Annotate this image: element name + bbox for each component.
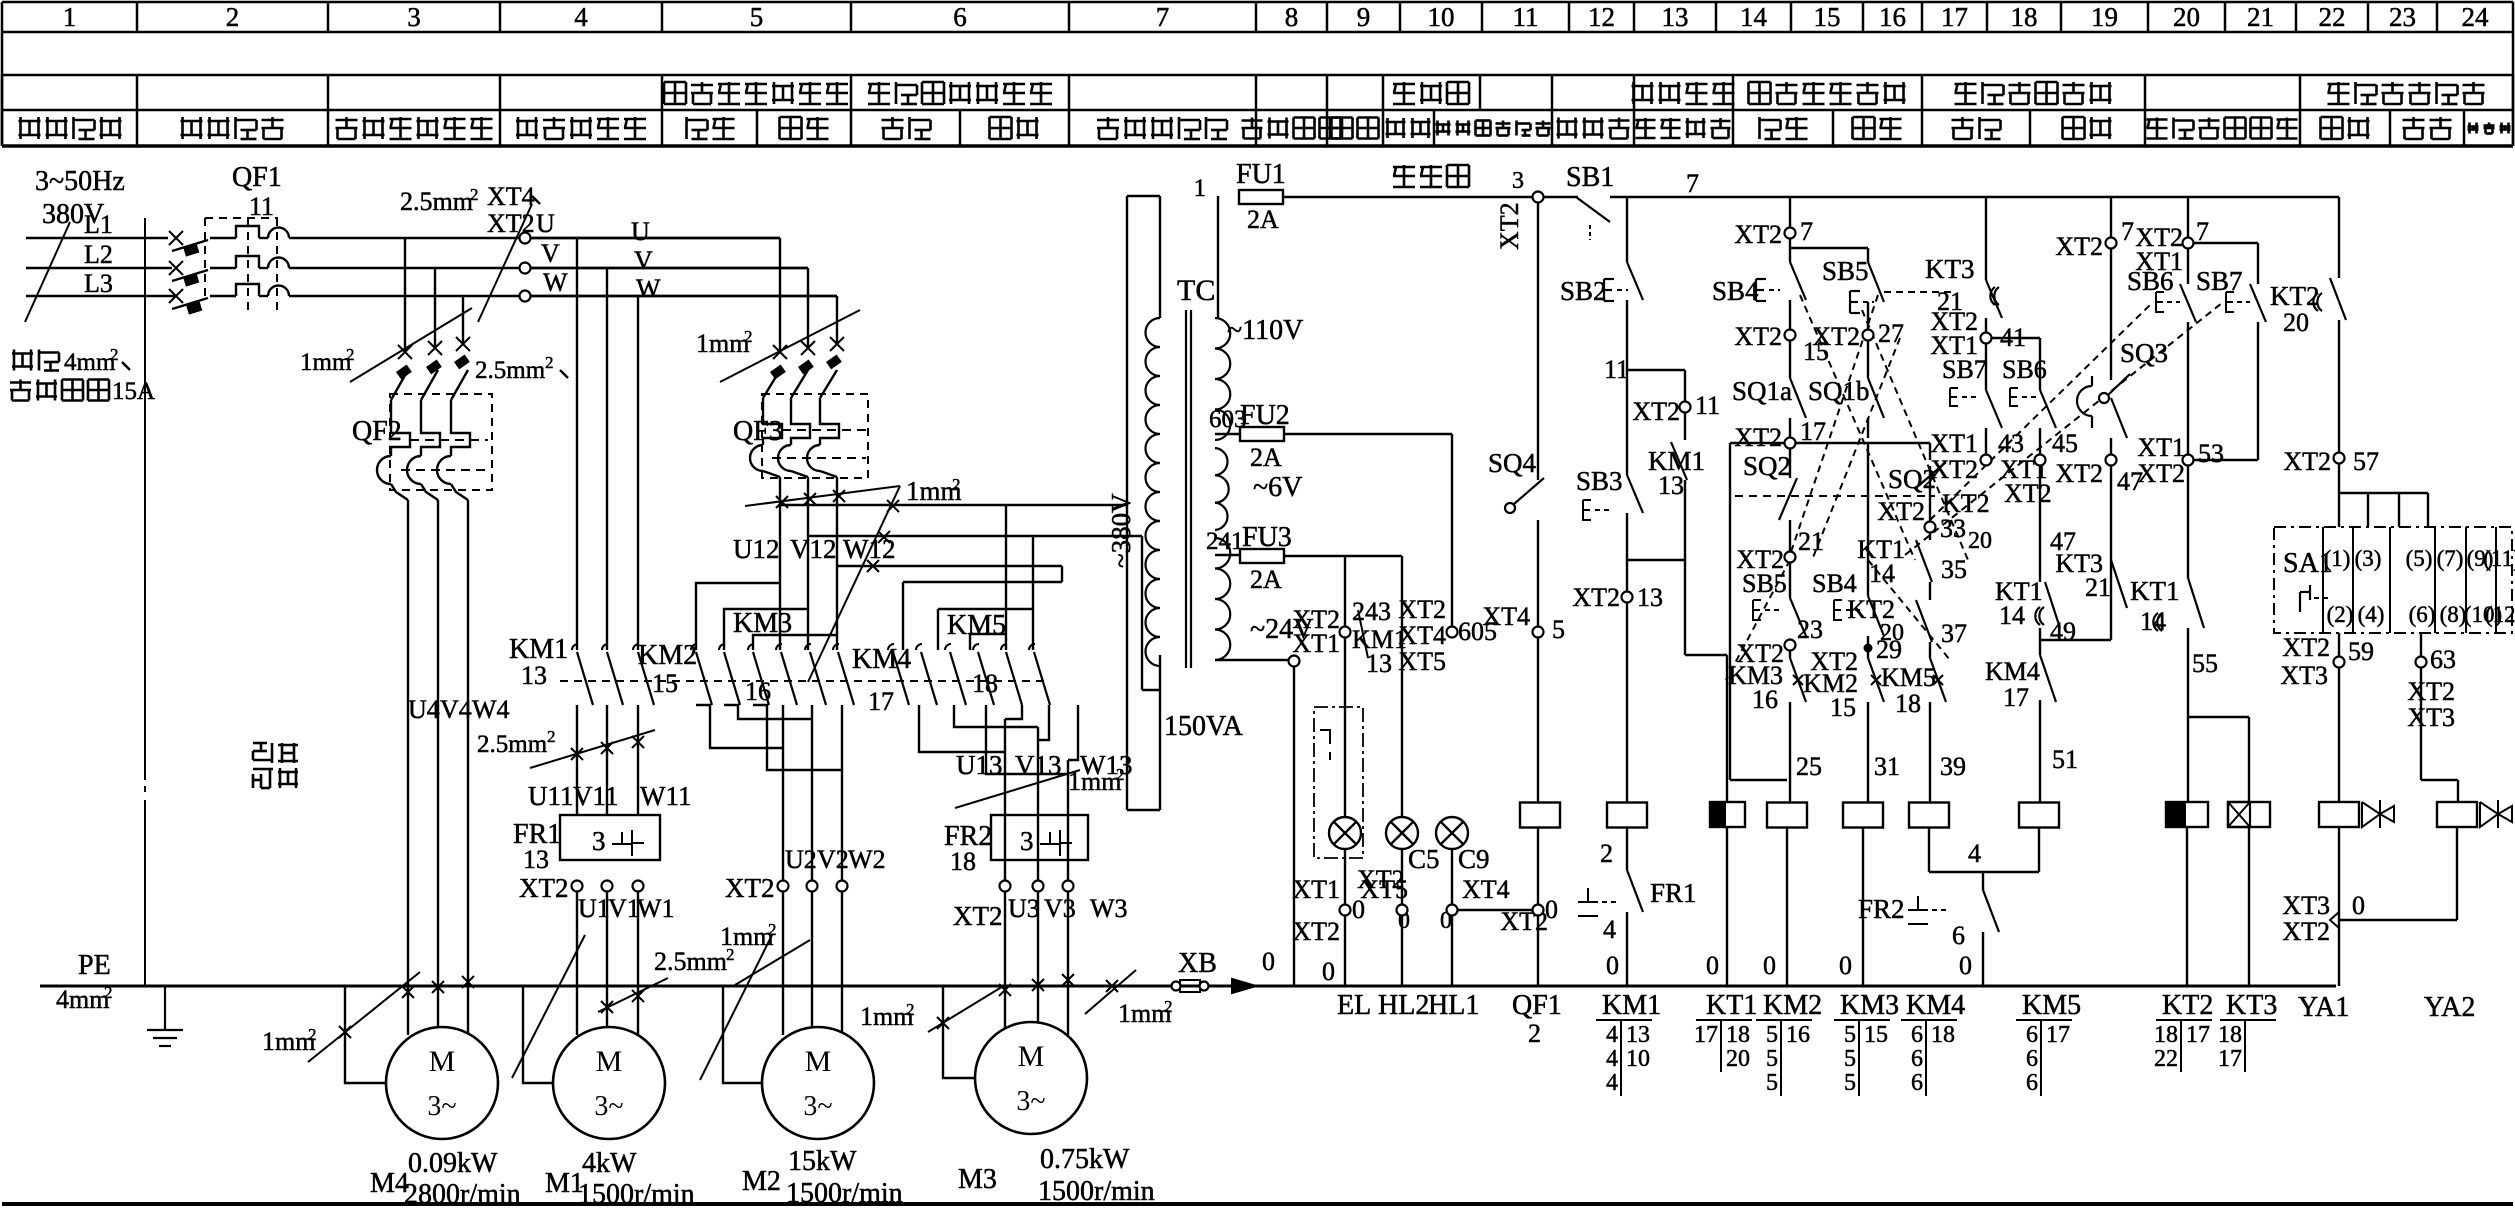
- svg-text:4mm: 4mm: [56, 985, 109, 1014]
- svg-text:18: 18: [1726, 1022, 1750, 1048]
- svg-text:5: 5: [1844, 1046, 1856, 1072]
- svg-text:(5): (5): [2406, 546, 2433, 571]
- svg-text:55: 55: [2192, 649, 2218, 678]
- svg-text:13: 13: [1662, 2, 1689, 32]
- svg-text:47: 47: [2050, 527, 2076, 556]
- svg-text:XT2: XT2: [1734, 322, 1782, 351]
- svg-text:W11: W11: [640, 781, 691, 811]
- svg-text:11: 11: [249, 192, 274, 221]
- svg-text:W: W: [543, 268, 568, 297]
- svg-text:(3): (3): [2355, 546, 2382, 571]
- svg-text:5: 5: [1844, 1070, 1856, 1096]
- svg-text:XT2: XT2: [1572, 583, 1620, 612]
- svg-text:SB3: SB3: [1576, 466, 1623, 496]
- svg-text:1mm: 1mm: [696, 329, 749, 358]
- svg-text:0: 0: [1262, 947, 1275, 976]
- svg-text:U2: U2: [785, 845, 817, 874]
- svg-text:SB4: SB4: [1812, 569, 1857, 598]
- svg-text:21: 21: [1798, 527, 1824, 556]
- svg-text:XT1: XT1: [1292, 875, 1340, 904]
- svg-text:47: 47: [2117, 467, 2143, 496]
- svg-text:M: M: [1018, 1040, 1045, 1073]
- svg-text:(12): (12): [2485, 602, 2515, 627]
- svg-text:59: 59: [2348, 637, 2374, 666]
- svg-text:20: 20: [1726, 1046, 1750, 1072]
- svg-text:22: 22: [2319, 2, 2346, 32]
- svg-text:W2: W2: [848, 845, 886, 874]
- svg-text:U4: U4: [408, 695, 440, 724]
- svg-text:XT2: XT2: [1812, 322, 1860, 351]
- svg-text:U: U: [536, 209, 555, 238]
- svg-text:V11: V11: [573, 781, 619, 811]
- svg-text:FU1: FU1: [1236, 159, 1286, 190]
- svg-text:18: 18: [2154, 1022, 2178, 1048]
- svg-text:U13: U13: [956, 750, 1003, 780]
- svg-text:SQ4: SQ4: [1488, 448, 1537, 478]
- svg-text:(4): (4): [2358, 602, 2385, 627]
- svg-text:1mm: 1mm: [300, 349, 352, 376]
- svg-text:XT3: XT3: [2407, 703, 2455, 732]
- svg-text:~380V: ~380V: [1106, 493, 1136, 568]
- svg-text:13: 13: [523, 845, 549, 874]
- svg-text:V4: V4: [440, 695, 472, 724]
- svg-text:63: 63: [2430, 645, 2456, 674]
- svg-text:2A: 2A: [1250, 565, 1282, 594]
- svg-text:25: 25: [1796, 752, 1822, 781]
- svg-text:0.75kW: 0.75kW: [1040, 1144, 1130, 1175]
- svg-text:13: 13: [1366, 649, 1392, 678]
- svg-text:XT2: XT2: [1632, 397, 1680, 426]
- svg-text:SB7: SB7: [1942, 355, 1987, 384]
- svg-text:V: V: [541, 239, 560, 268]
- svg-text:XT4: XT4: [1482, 602, 1530, 631]
- svg-text:(6): (6): [2409, 602, 2436, 627]
- svg-text:7: 7: [1686, 169, 1699, 198]
- svg-text:14: 14: [1999, 601, 2025, 630]
- svg-text:KM5: KM5: [2022, 990, 2081, 1021]
- svg-text:7: 7: [2121, 217, 2134, 246]
- svg-text:XT2: XT2: [1292, 917, 1340, 946]
- svg-text:XT2: XT2: [1398, 595, 1446, 624]
- svg-text:W3: W3: [1090, 894, 1128, 923]
- svg-text:8: 8: [1285, 2, 1299, 32]
- svg-text:17: 17: [1800, 417, 1826, 446]
- svg-text:18: 18: [2218, 1022, 2242, 1048]
- svg-text:18: 18: [1895, 689, 1921, 718]
- svg-text:1: 1: [1194, 175, 1207, 202]
- svg-text:QF1: QF1: [1512, 990, 1562, 1021]
- svg-text:W: W: [636, 274, 661, 303]
- svg-text:6: 6: [1911, 1070, 1923, 1096]
- svg-text:EL: EL: [1337, 990, 1371, 1021]
- svg-text:2: 2: [346, 345, 355, 364]
- svg-text:XT2: XT2: [2407, 677, 2455, 706]
- svg-text:5: 5: [1844, 1022, 1856, 1048]
- svg-text:YA1: YA1: [2298, 992, 2349, 1023]
- svg-text:16: 16: [745, 677, 771, 706]
- svg-text:33: 33: [1940, 514, 1966, 543]
- svg-text:19: 19: [2091, 2, 2118, 32]
- svg-text:15kW: 15kW: [788, 1146, 857, 1177]
- svg-text:15: 15: [1864, 1022, 1888, 1048]
- svg-text:XT3: XT3: [2282, 891, 2330, 920]
- svg-text:C9: C9: [1458, 844, 1490, 874]
- svg-text:2.5mm: 2.5mm: [654, 947, 727, 976]
- svg-text:0: 0: [1763, 951, 1776, 980]
- svg-text:V13: V13: [1015, 750, 1062, 780]
- svg-text:11: 11: [1513, 2, 1539, 32]
- svg-text:2: 2: [226, 2, 240, 32]
- svg-text:XT2: XT2: [953, 901, 1003, 931]
- svg-text:16: 16: [1786, 1022, 1810, 1048]
- svg-text:10: 10: [1428, 2, 1455, 32]
- svg-text:SB4: SB4: [1712, 276, 1759, 306]
- svg-text:1500r/min: 1500r/min: [1038, 1176, 1155, 1206]
- svg-text:SB6: SB6: [2127, 266, 2174, 296]
- svg-text:KT1: KT1: [2130, 576, 2180, 606]
- svg-text:(11): (11): [2483, 546, 2515, 571]
- svg-text:V1: V1: [608, 894, 640, 923]
- svg-text:45: 45: [2052, 429, 2078, 458]
- svg-text:(7): (7): [2437, 546, 2464, 571]
- svg-text:SQ3: SQ3: [2120, 338, 2168, 368]
- svg-text:17: 17: [2046, 1022, 2070, 1048]
- svg-text:17: 17: [2186, 1022, 2210, 1048]
- svg-text:KM3: KM3: [1840, 990, 1899, 1021]
- svg-text:XT3: XT3: [2280, 661, 2328, 690]
- svg-text:2: 2: [547, 727, 556, 746]
- svg-text:18: 18: [972, 669, 998, 698]
- svg-text:SQ1b: SQ1b: [1808, 376, 1870, 406]
- svg-text:14: 14: [2140, 607, 2166, 636]
- svg-text:0: 0: [1839, 951, 1852, 980]
- svg-text:20: 20: [1880, 620, 1904, 646]
- svg-text:11: 11: [1604, 355, 1629, 384]
- svg-text:XT2: XT2: [2055, 232, 2103, 261]
- svg-text:0: 0: [1706, 951, 1719, 980]
- svg-text:SB5: SB5: [1822, 256, 1869, 286]
- svg-text:M: M: [429, 1045, 456, 1078]
- svg-text:20: 20: [2283, 308, 2309, 337]
- svg-text:YA2: YA2: [2424, 992, 2475, 1023]
- svg-text:2: 2: [1600, 839, 1613, 868]
- svg-text:FU2: FU2: [1240, 400, 1290, 431]
- svg-text:L1: L1: [84, 210, 113, 239]
- svg-text:43: 43: [1998, 429, 2024, 458]
- svg-text:4mm: 4mm: [64, 349, 116, 376]
- svg-text:KT2: KT2: [2270, 281, 2320, 311]
- svg-text:5: 5: [1766, 1022, 1778, 1048]
- svg-text:3~: 3~: [594, 1091, 623, 1122]
- svg-text:2: 2: [744, 327, 753, 346]
- svg-text:L3: L3: [84, 269, 113, 298]
- svg-text:5: 5: [1552, 615, 1565, 644]
- svg-text:11: 11: [1695, 391, 1720, 420]
- svg-text:XT2: XT2: [519, 873, 569, 903]
- svg-text:0.09kW: 0.09kW: [408, 1148, 498, 1179]
- svg-text:HL1: HL1: [1428, 990, 1479, 1021]
- svg-text:KT2: KT2: [2162, 990, 2213, 1021]
- svg-text:W1: W1: [637, 894, 675, 923]
- svg-text:0: 0: [1606, 951, 1619, 980]
- svg-text:6: 6: [2026, 1046, 2038, 1072]
- svg-text:14: 14: [1869, 559, 1895, 588]
- svg-text:3~: 3~: [803, 1091, 832, 1122]
- svg-text:9: 9: [1357, 2, 1371, 32]
- svg-text:(2): (2): [2327, 602, 2354, 627]
- svg-text:1: 1: [63, 2, 77, 32]
- svg-text:15: 15: [1830, 693, 1856, 722]
- svg-text:KM2: KM2: [638, 640, 697, 671]
- svg-text:17: 17: [868, 687, 894, 716]
- svg-text:XT4: XT4: [1398, 621, 1446, 650]
- svg-text:2.5mm: 2.5mm: [475, 357, 546, 384]
- svg-text:XT5: XT5: [1360, 875, 1408, 904]
- svg-text:10: 10: [1626, 1046, 1650, 1072]
- svg-text:XT2: XT2: [2055, 459, 2103, 488]
- svg-text:2: 2: [545, 353, 554, 372]
- svg-text:2: 2: [906, 1000, 915, 1019]
- svg-text:XT2: XT2: [2282, 917, 2330, 946]
- svg-text:4: 4: [1968, 839, 1981, 868]
- svg-text:2.5mm: 2.5mm: [400, 187, 473, 216]
- svg-text:51: 51: [2052, 745, 2078, 774]
- svg-text:7: 7: [1800, 217, 1813, 246]
- svg-text:SQ2: SQ2: [1743, 451, 1791, 481]
- svg-text:20: 20: [2173, 2, 2200, 32]
- svg-text:SQ1a: SQ1a: [1732, 376, 1792, 406]
- svg-text:M: M: [805, 1045, 832, 1078]
- svg-text:23: 23: [1797, 615, 1823, 644]
- svg-text:0: 0: [2352, 891, 2365, 920]
- svg-text:17: 17: [1941, 2, 1968, 32]
- svg-text:W12: W12: [843, 534, 895, 564]
- svg-text:6: 6: [2026, 1070, 2038, 1096]
- svg-text:V: V: [634, 246, 653, 275]
- svg-text:XT1: XT1: [1292, 629, 1340, 658]
- svg-text:6: 6: [1911, 1022, 1923, 1048]
- svg-text:XT2: XT2: [2283, 447, 2331, 476]
- svg-text:FR1: FR1: [1650, 878, 1697, 908]
- svg-text:13: 13: [1637, 583, 1663, 612]
- svg-text:M: M: [596, 1045, 623, 1078]
- svg-text:0: 0: [1545, 895, 1558, 924]
- svg-text:V2: V2: [817, 845, 849, 874]
- svg-text:3: 3: [1512, 168, 1524, 194]
- svg-text:3: 3: [1020, 826, 1034, 856]
- svg-text:(8): (8): [2440, 602, 2467, 627]
- svg-text:KM1: KM1: [1602, 990, 1661, 1021]
- svg-text:U11: U11: [528, 781, 574, 811]
- svg-text:15: 15: [1814, 2, 1841, 32]
- svg-text:3~: 3~: [1016, 1086, 1045, 1117]
- svg-text:SB2: SB2: [1560, 276, 1607, 306]
- svg-text:SB5: SB5: [1742, 569, 1787, 598]
- svg-text:C5: C5: [1408, 844, 1440, 874]
- svg-text:L2: L2: [84, 240, 113, 269]
- svg-text:2: 2: [470, 185, 479, 204]
- svg-text:XT1: XT1: [2137, 433, 2185, 462]
- svg-text:2: 2: [1164, 997, 1173, 1016]
- svg-text:QF1: QF1: [232, 162, 282, 193]
- svg-text:2: 2: [308, 1025, 317, 1044]
- svg-text:M2: M2: [742, 1166, 781, 1197]
- svg-text:2800r/min: 2800r/min: [404, 1179, 521, 1206]
- svg-text:5: 5: [1766, 1046, 1778, 1072]
- svg-text:PE: PE: [78, 950, 111, 981]
- svg-text:4: 4: [1606, 1046, 1618, 1072]
- svg-text:5: 5: [1766, 1070, 1778, 1096]
- svg-text:17: 17: [2218, 1046, 2242, 1072]
- svg-text:15A: 15A: [112, 378, 155, 405]
- svg-text:KT3: KT3: [2226, 990, 2277, 1021]
- svg-text:5: 5: [750, 2, 764, 32]
- svg-text:XB: XB: [1178, 948, 1217, 979]
- svg-text:2.5mm: 2.5mm: [477, 731, 548, 758]
- svg-text:4: 4: [1606, 1070, 1618, 1096]
- svg-text:13: 13: [1658, 471, 1684, 500]
- svg-text:QF2: QF2: [352, 416, 402, 447]
- svg-text:0: 0: [1959, 951, 1972, 980]
- svg-text:23: 23: [2389, 2, 2416, 32]
- svg-text:3~50Hz: 3~50Hz: [35, 166, 125, 197]
- svg-text:241: 241: [1206, 528, 1244, 555]
- svg-text:24: 24: [2462, 2, 2490, 32]
- svg-text:U: U: [631, 217, 650, 246]
- svg-text:17: 17: [2003, 683, 2029, 712]
- svg-text:39: 39: [1940, 752, 1966, 781]
- svg-text:U3: U3: [1008, 894, 1040, 923]
- svg-text:W4: W4: [472, 695, 510, 724]
- svg-text:3: 3: [407, 2, 421, 32]
- svg-text:FU3: FU3: [1242, 522, 1292, 553]
- svg-text:2: 2: [1528, 1019, 1541, 1048]
- svg-text:12: 12: [1588, 2, 1615, 32]
- svg-text:4: 4: [1603, 915, 1616, 944]
- svg-text:XT2: XT2: [2137, 459, 2185, 488]
- svg-text:2: 2: [110, 345, 119, 364]
- svg-text:KM4: KM4: [1985, 657, 2040, 686]
- svg-text:14: 14: [1740, 2, 1768, 32]
- svg-text:6: 6: [1952, 921, 1965, 950]
- svg-text:KM4: KM4: [1906, 990, 1965, 1021]
- svg-text:M3: M3: [958, 1164, 997, 1195]
- svg-text:4: 4: [574, 2, 588, 32]
- svg-text:TC: TC: [1177, 274, 1215, 307]
- svg-text:37: 37: [1941, 619, 1967, 648]
- svg-text:U1: U1: [578, 894, 610, 923]
- svg-text:35: 35: [1941, 555, 1967, 584]
- svg-text:2A: 2A: [1247, 205, 1279, 234]
- svg-text:31: 31: [1874, 752, 1900, 781]
- svg-text:KT1: KT1: [1706, 990, 1757, 1021]
- svg-text:XT2: XT2: [1877, 497, 1925, 526]
- svg-text:3: 3: [592, 826, 606, 856]
- svg-text:0: 0: [1322, 957, 1335, 986]
- svg-text:6: 6: [2026, 1022, 2038, 1048]
- svg-text:49: 49: [2050, 617, 2076, 646]
- svg-text:13: 13: [1626, 1022, 1650, 1048]
- svg-text:2: 2: [952, 475, 961, 494]
- svg-text:2A: 2A: [1250, 443, 1282, 472]
- svg-text:SB7: SB7: [2196, 266, 2243, 296]
- svg-text:XT1: XT1: [1930, 429, 1978, 458]
- svg-text:18: 18: [2011, 2, 2038, 32]
- svg-text:XT2: XT2: [1930, 455, 1978, 484]
- svg-text:XT2: XT2: [2282, 633, 2330, 662]
- svg-text:6: 6: [1911, 1046, 1923, 1072]
- svg-text:7: 7: [2196, 217, 2209, 246]
- svg-text:XT4: XT4: [487, 182, 535, 211]
- svg-text:4kW: 4kW: [582, 1148, 637, 1179]
- svg-text:HL2: HL2: [1378, 990, 1429, 1021]
- svg-text:2: 2: [726, 945, 735, 964]
- svg-text:22: 22: [2154, 1046, 2178, 1072]
- svg-text:KM2: KM2: [1763, 990, 1822, 1021]
- svg-text:53: 53: [2198, 439, 2224, 468]
- svg-text:21: 21: [2247, 2, 2274, 32]
- svg-text:KT3: KT3: [1925, 254, 1975, 284]
- svg-text:KM5: KM5: [947, 610, 1006, 641]
- svg-text:SB1: SB1: [1566, 162, 1614, 193]
- svg-text:16: 16: [1752, 685, 1778, 714]
- svg-text:18: 18: [1931, 1022, 1955, 1048]
- svg-text:4: 4: [1606, 1022, 1618, 1048]
- svg-text:XT5: XT5: [1398, 647, 1446, 676]
- svg-text:XT2: XT2: [1734, 423, 1782, 452]
- svg-text:U12: U12: [733, 534, 780, 564]
- svg-text:FR2: FR2: [1858, 894, 1905, 924]
- svg-text:150VA: 150VA: [1164, 711, 1244, 742]
- svg-text:57: 57: [2353, 447, 2379, 476]
- svg-text:17: 17: [1694, 1022, 1718, 1048]
- svg-text:6: 6: [953, 2, 967, 32]
- svg-text:~6V: ~6V: [1253, 472, 1302, 503]
- svg-text:27: 27: [1878, 319, 1904, 348]
- svg-text:15: 15: [652, 669, 678, 698]
- svg-text:20: 20: [1968, 528, 1992, 554]
- svg-text:XT2: XT2: [2004, 479, 2052, 508]
- svg-text:18: 18: [950, 847, 976, 876]
- svg-text:16: 16: [1879, 2, 1906, 32]
- svg-text:1500r/min: 1500r/min: [578, 1179, 695, 1206]
- svg-text:V12: V12: [790, 534, 837, 564]
- svg-text:XT2: XT2: [725, 873, 775, 903]
- svg-text:V3: V3: [1044, 894, 1076, 923]
- svg-text:13: 13: [521, 661, 547, 690]
- svg-text:21: 21: [2085, 573, 2111, 602]
- svg-text:QF3: QF3: [733, 416, 783, 447]
- svg-text:2: 2: [104, 983, 113, 1002]
- svg-text:~110V: ~110V: [1227, 315, 1303, 346]
- svg-text:XT2: XT2: [1495, 202, 1524, 250]
- svg-text:3~: 3~: [427, 1091, 456, 1122]
- svg-text:XT2: XT2: [1734, 220, 1782, 249]
- svg-text:XT4: XT4: [1462, 875, 1510, 904]
- svg-text:(1): (1): [2324, 546, 2351, 571]
- svg-text:2: 2: [1116, 765, 1125, 784]
- svg-text:1500r/min: 1500r/min: [786, 1178, 903, 1206]
- svg-text:KM5: KM5: [1881, 663, 1936, 692]
- svg-text:7: 7: [1156, 2, 1170, 32]
